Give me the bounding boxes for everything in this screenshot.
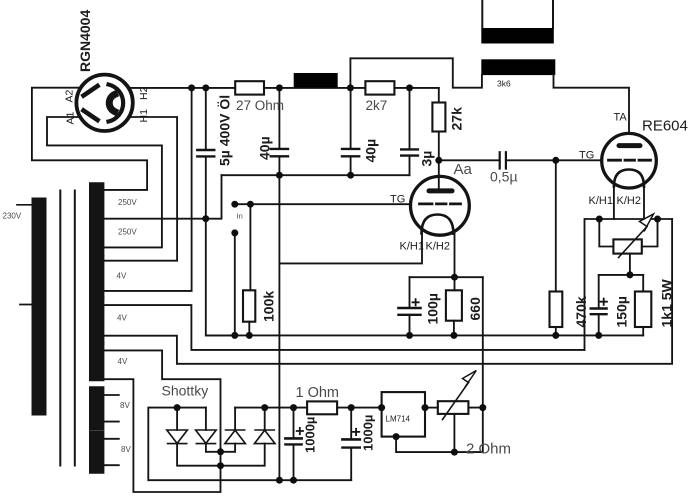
svg-text:250V: 250V — [118, 228, 137, 237]
svg-text:470k: 470k — [573, 296, 589, 327]
svg-text:660: 660 — [467, 297, 483, 321]
svg-text:8V: 8V — [121, 445, 131, 454]
svg-text:Shottky: Shottky — [162, 383, 209, 399]
svg-text:LM714: LM714 — [386, 415, 411, 424]
svg-text:5µ 400V Öl: 5µ 400V Öl — [217, 95, 233, 166]
svg-text:100k: 100k — [261, 291, 277, 322]
svg-text:3µ: 3µ — [419, 151, 435, 167]
svg-text:In: In — [237, 212, 243, 221]
svg-text:150µ: 150µ — [614, 296, 630, 327]
svg-text:TG: TG — [579, 150, 594, 162]
svg-text:H2: H2 — [138, 86, 150, 100]
svg-text:2 Ohm: 2 Ohm — [466, 441, 511, 458]
svg-text:4V: 4V — [117, 314, 127, 323]
svg-text:Aa: Aa — [454, 161, 473, 178]
svg-text:K/H1: K/H1 — [400, 241, 424, 253]
svg-text:40µ: 40µ — [257, 136, 273, 160]
svg-text:2k7: 2k7 — [366, 98, 388, 113]
svg-text:TA: TA — [614, 112, 628, 124]
svg-text:1000µ: 1000µ — [303, 417, 318, 453]
svg-text:3k6: 3k6 — [497, 79, 511, 89]
svg-text:K/H2: K/H2 — [426, 241, 450, 253]
svg-text:8V: 8V — [120, 401, 130, 410]
svg-text:K/H2: K/H2 — [617, 195, 641, 207]
svg-text:100µ: 100µ — [425, 293, 441, 324]
svg-text:4V: 4V — [118, 357, 128, 366]
svg-text:1000µ: 1000µ — [361, 415, 376, 451]
svg-text:1k1 5W: 1k1 5W — [659, 278, 675, 327]
svg-text:A1: A1 — [65, 111, 77, 124]
svg-text:27 Ohm: 27 Ohm — [236, 98, 284, 113]
svg-text:RGN4004: RGN4004 — [77, 10, 93, 72]
svg-text:4V: 4V — [117, 272, 127, 281]
svg-text:H1: H1 — [138, 109, 150, 123]
svg-text:230V: 230V — [3, 212, 22, 221]
svg-text:TG: TG — [390, 194, 405, 206]
svg-text:0,5µ: 0,5µ — [490, 169, 518, 185]
svg-text:K/H1: K/H1 — [589, 195, 613, 207]
svg-text:A2: A2 — [64, 89, 76, 102]
svg-text:250V: 250V — [118, 198, 137, 207]
svg-text:RE604: RE604 — [642, 118, 688, 135]
svg-text:27k: 27k — [449, 107, 465, 131]
svg-text:1 Ohm: 1 Ohm — [296, 385, 340, 401]
svg-text:40µ: 40µ — [363, 139, 379, 163]
